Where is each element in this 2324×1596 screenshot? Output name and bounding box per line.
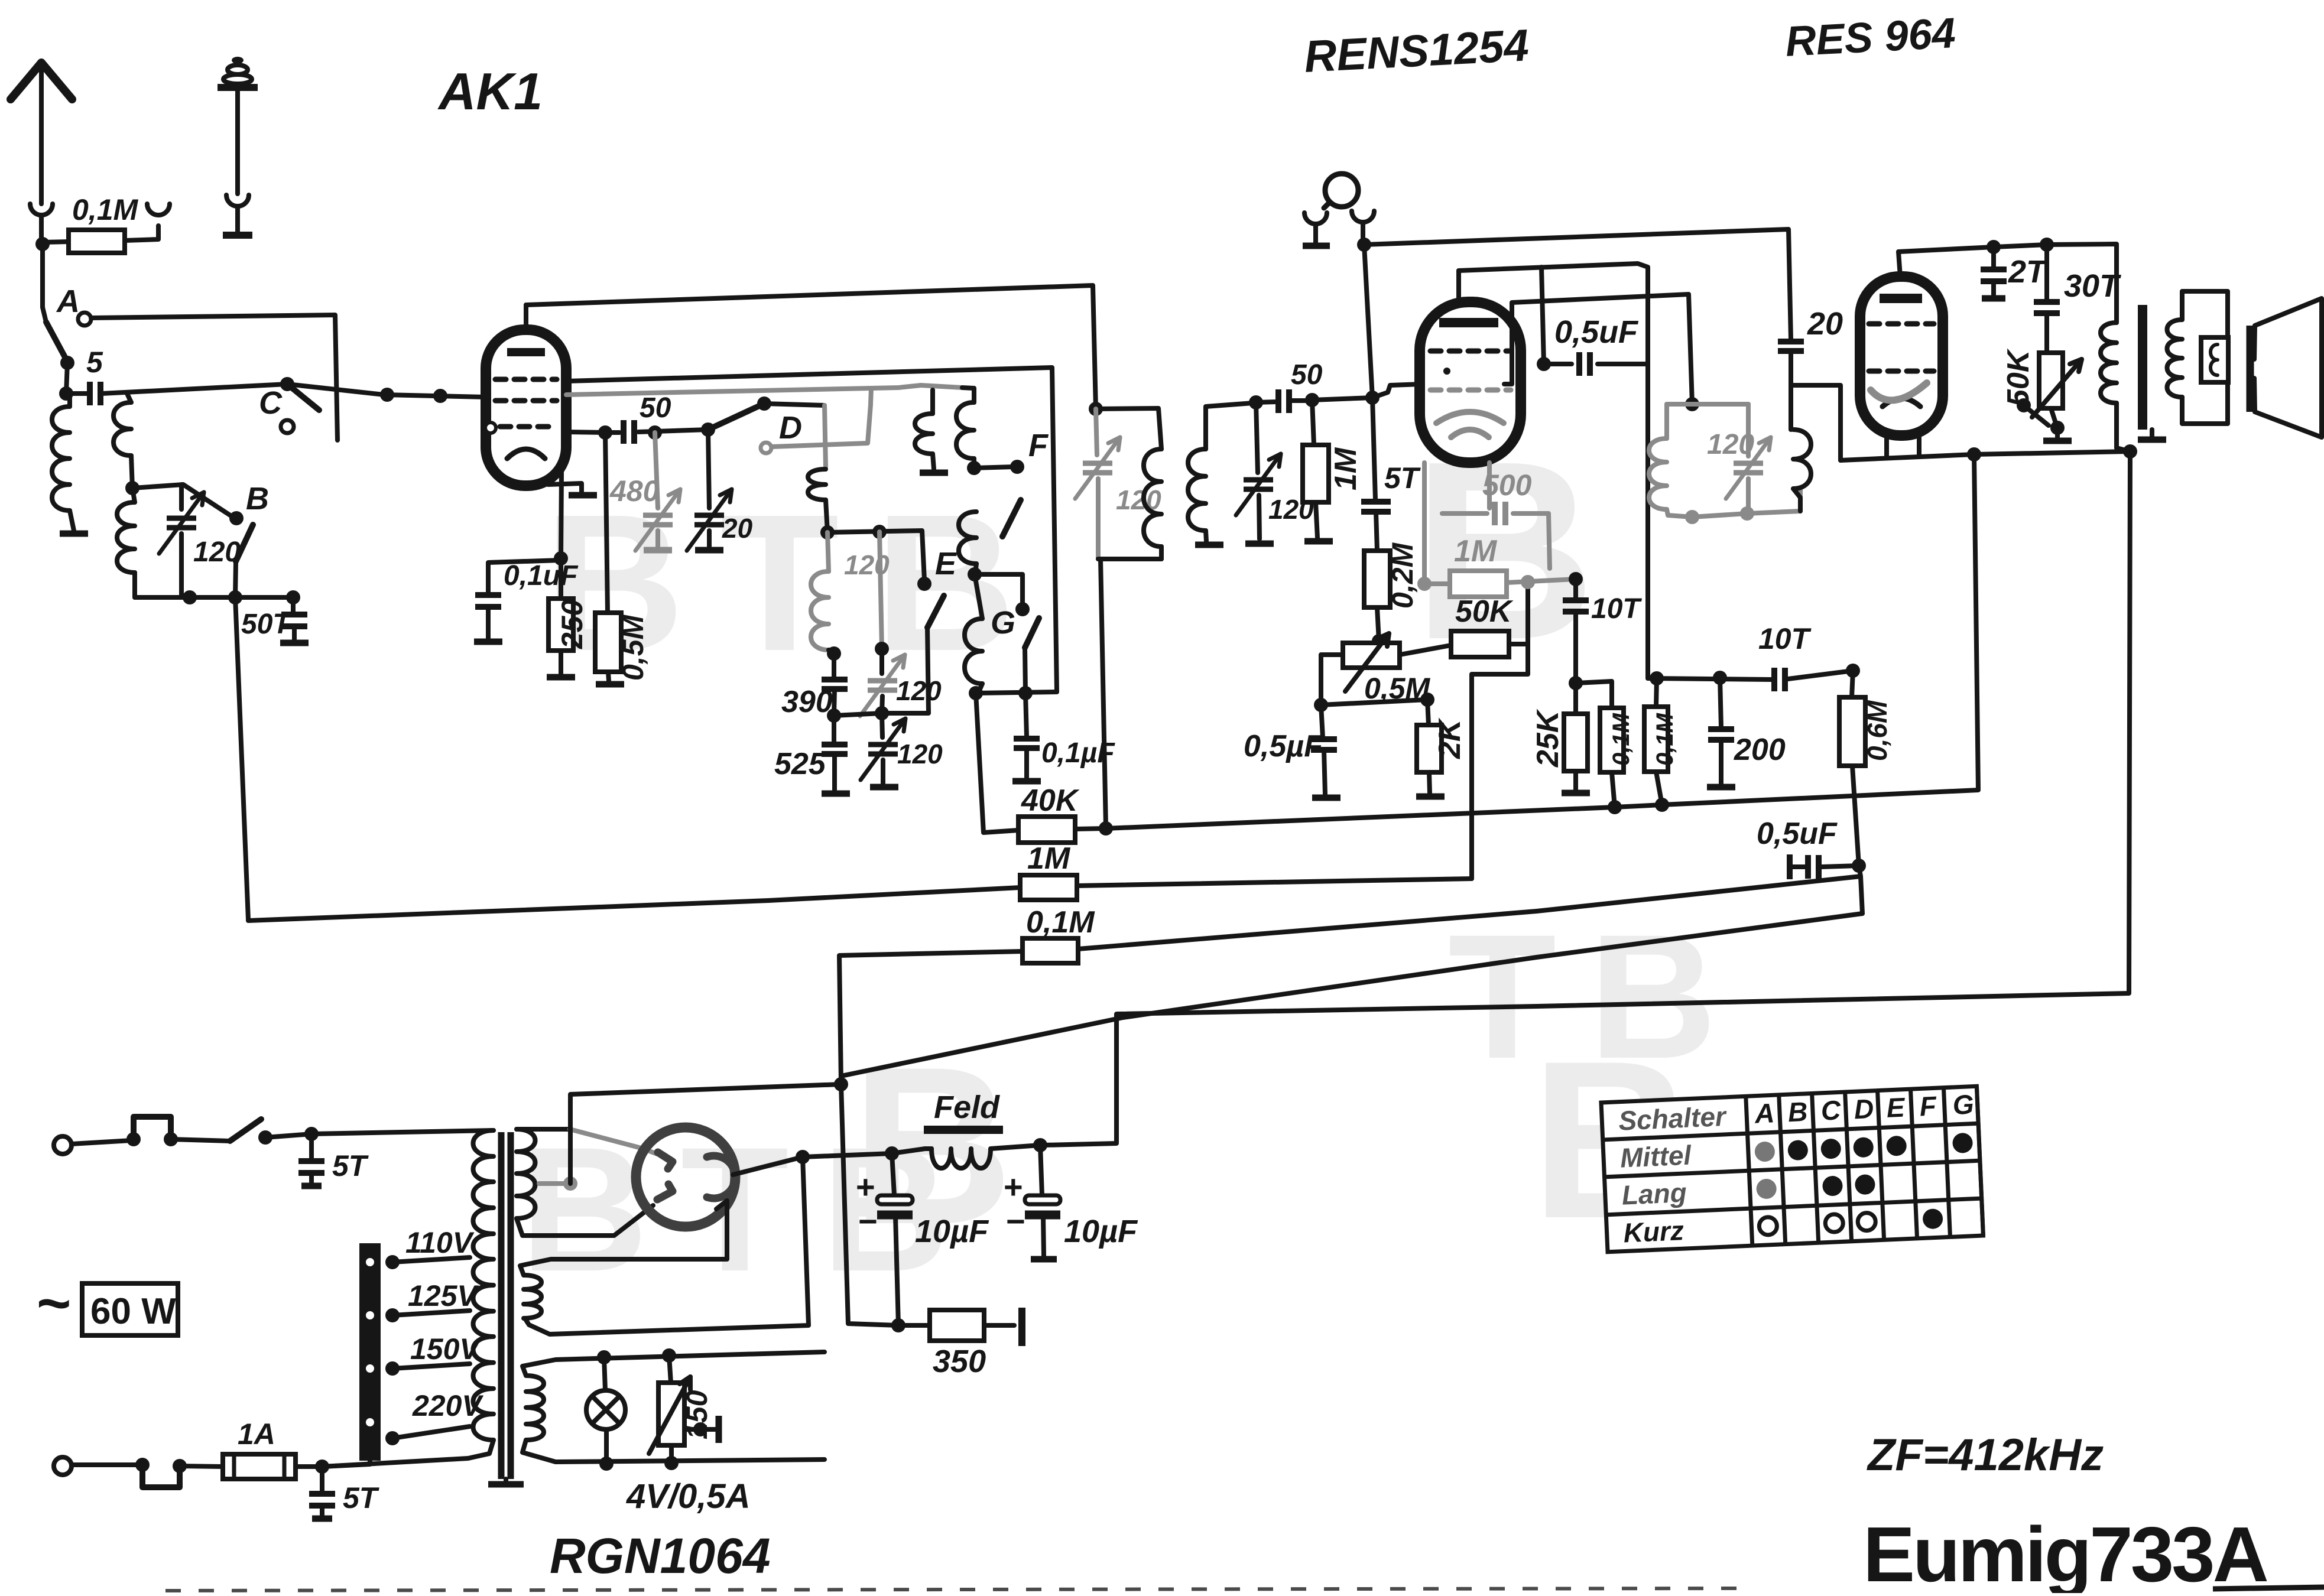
node pot 0,5M top [1372,634,1386,648]
node var cap 480a top [380,388,394,402]
svg-text:10µF: 10µF [1064,1214,1138,1249]
svg-text:120: 120 [896,675,942,706]
resistor 250 [559,558,563,599]
wire osc tank top row [827,531,924,580]
svg-text:TB: TB [1448,897,1750,1096]
rectifier plate stubs [658,1152,673,1169]
svg-text:+: + [856,1168,875,1205]
svg-text:Feld: Feld [934,1090,1000,1125]
antenna coil L1 primary [52,407,70,511]
wire screen row to 0,1M a [1576,681,1612,708]
resistor 25K [1573,683,1578,714]
wire 50K right step [1509,642,1528,646]
wire RENS anode row [1459,264,1648,678]
oscillator coupling coil [808,469,826,500]
wire Lc to G contact [975,574,1023,607]
node 50K tone bottom [2050,421,2065,435]
capacitor 500 gray [1492,502,1498,525]
node 50K tone wiper [2017,398,2031,412]
svg-text:1M: 1M [1329,447,1363,490]
node 0,5uF detector out [1852,859,1866,873]
node L2 bottom [125,481,139,495]
svg-text:50T: 50T [241,609,292,640]
wire screen top row [1648,678,1771,680]
switch B contact [229,511,244,525]
variable capacitor 120 IF1 sec [1256,402,1258,473]
svg-text:C: C [1820,1094,1842,1126]
wire heater bottom row [522,1440,825,1462]
wire tap 150V [392,1364,470,1369]
variable capacitor 120 IF3 [1746,404,1751,456]
node grid row left [598,425,612,440]
wire IF3 top rail [1667,402,1748,407]
node IF3 top [1685,397,1699,411]
capacitor 0,1uF osc [1025,693,1027,737]
capacitor 10T screen [1573,579,1578,599]
svg-text:B: B [246,481,269,516]
node phono [1357,238,1371,252]
svg-text:2K: 2K [1433,717,1467,759]
scan edge artifact [2213,1587,2324,1589]
wire mains top [72,1140,131,1144]
wire C row to tube AK1 grid [287,384,486,397]
ground 2K [1416,794,1445,800]
wire IF1 top rail [1096,408,1161,449]
coil IF1 secondary [1188,449,1206,531]
capacitor 0,1uF AK1 [488,560,561,593]
wire RENS anode riser [1456,271,1461,302]
capacitor 0,5uF af (series) [1787,854,1793,879]
switch D contact [761,443,771,453]
transformer core [498,1132,505,1479]
coil detector [1793,430,1811,489]
node antenna junction [35,237,50,251]
node below switch A [60,356,74,370]
resistor 0,1M b [1656,678,1657,707]
node W1 0,1Ma [1608,800,1622,814]
potentiometer 0,5M [1343,643,1400,668]
node 5T mains top [304,1127,319,1141]
oscillator tank coil 120 [811,571,829,650]
svg-text:350: 350 [933,1344,986,1379]
node 0,5uF left [1314,698,1328,712]
ground 0,1uF osc [1012,778,1041,785]
switch E blade [927,596,944,628]
wire G to row [1025,648,1025,693]
node lamp top [597,1350,611,1364]
node 150 top [662,1348,676,1363]
coil IF1 primary [1144,449,1161,547]
resistor 40K [1018,817,1075,843]
wire cap5 to switch C [66,391,89,396]
ground AK1 bulb [569,492,597,499]
switch B blade [236,525,253,561]
svg-text:5T: 5T [1384,461,1421,495]
svg-text:4V/0,5A: 4V/0,5A [626,1477,751,1516]
svg-text:Schalter: Schalter [1618,1101,1728,1136]
node IF1 sec top [1249,395,1263,409]
svg-text:5: 5 [86,346,103,379]
ground IF1 secondary [1195,542,1223,548]
wire pot left leg [1321,655,1343,705]
capacitor 5T [1372,398,1375,499]
resistor 350 [898,1323,930,1328]
svg-text:RGN1064: RGN1064 [550,1528,771,1584]
tube RES964 cathode [1882,398,1920,407]
node osc tank cap riser [872,525,887,539]
node 1M gray right [1521,575,1535,589]
svg-text:~: ~ [37,1270,71,1337]
wire HV top to rectifier plate [517,1127,570,1132]
svg-text:125V: 125V [408,1279,479,1312]
svg-text:ZF=412kHz: ZF=412kHz [1867,1430,2104,1480]
ground 120 IF1 sec [1245,541,1274,547]
coil L3 secondary lower [117,502,135,573]
ground 250 [547,674,575,681]
ground varcap 120c [870,784,898,791]
node tank bottom mid [228,590,242,604]
resistor 1M IF1 [1312,400,1314,445]
wire AK1 bulb to ground [548,483,582,492]
ground 0,5M [596,681,624,688]
capacitor 200 [1720,678,1721,727]
tube AK1 envelope [486,330,566,486]
wire W2 0,1M line right [1078,876,1861,949]
node switch D pivot [701,422,715,437]
wire 0,5uF to anode row [1541,267,1544,364]
tube RENS pins [1422,463,1427,509]
svg-text:1M: 1M [1454,534,1498,568]
resistor 2K [1427,700,1429,725]
wire RES964 cathode row [1841,451,2130,460]
node Lc bottom [968,567,982,581]
variable capacitor 120c [882,713,882,737]
capacitor 10uF 1 [892,1153,894,1195]
node osc tank top [820,525,835,539]
wire W5 bias return [844,914,1862,1075]
capacitor 30T [2044,245,2049,300]
svg-text:−: − [858,1202,878,1240]
table switch positions [1601,1086,1983,1252]
wire to Feld choke [803,1149,925,1157]
svg-text:0,5uF: 0,5uF [1757,817,1838,851]
ground La [920,470,948,476]
node 525 top [827,708,841,723]
transformer heater winding [526,1376,544,1440]
terminal 150 wiper [716,1416,722,1443]
node IF3 bottom left [1685,510,1699,524]
wire fuse to transformer [296,1458,468,1467]
svg-text:30T: 30T [2064,268,2121,304]
resistor 0,1M a [1600,708,1624,772]
capacitor 50T [291,597,296,613]
wire W1 to output stage [1106,454,1978,828]
svg-text:50: 50 [640,392,671,424]
coil osc Lc [959,512,976,564]
tube RENS anode plate [1439,318,1498,327]
transformer rectifier filament winding [524,1275,541,1318]
transformer HV winding [517,1129,535,1218]
wire D row to coupling coil [764,404,825,405]
svg-text:0,2M: 0,2M [1386,542,1419,609]
wire RES964 anode riser [1898,252,1900,277]
resistor 50K [1451,631,1509,657]
node cathode row right [2123,444,2137,459]
speaker magnet bar [2247,326,2254,412]
node lamp bottom [599,1457,614,1471]
node 150 wiper [693,1422,707,1436]
svg-text:5T: 5T [332,1149,369,1182]
switch F contact [1010,460,1024,474]
wire rectifier output [733,1157,803,1175]
wire AK1 grid cap row [566,432,605,433]
node varcap row2 [875,706,889,720]
capacitor 20 detector [1778,339,1804,344]
variable capacitor 20b [708,430,709,508]
svg-text:10T: 10T [1591,593,1642,625]
wire AK1 cathode gray row [566,385,962,395]
wire input tank bottom row [135,595,293,600]
table labels [1618,1089,1979,1249]
variable capacitor 480b gray [655,433,658,508]
coil IF3 primary [1649,438,1667,509]
svg-text:0,1M: 0,1M [72,193,139,226]
wire 0,6M chain down [1859,866,1862,914]
resistor 1M line [1020,875,1077,900]
coil L2 secondary upper [113,402,131,456]
tube RES964 anode plate [1880,294,1922,303]
wire 390 bottom to varcap2 [834,713,882,716]
ground 480b [644,547,672,554]
capacitor 5T mains bottom [320,1467,324,1492]
wire W3 1M line left [235,597,1020,921]
wire HV tap riser to bias node [570,1084,841,1184]
switch mains blade [230,1119,261,1141]
earth antenna symbol [232,57,244,64]
phono pickup jack [1325,174,1358,207]
capacitor 5T mains top [309,1134,314,1159]
wire E to bottom row [882,628,929,713]
tube RGN1064 rectifier [636,1127,735,1227]
fuse 1A [223,1454,296,1479]
tube RENS1254 envelope [1420,302,1521,463]
svg-text:120: 120 [1707,429,1754,460]
svg-text:0,1M: 0,1M [1608,712,1634,766]
wire W2 0,1M line left [839,951,1023,1083]
node 0,5uF anode left [1537,357,1551,371]
wire D contact link [772,405,871,447]
svg-text:60 W: 60 W [90,1291,176,1332]
phono cup left [1304,213,1327,224]
plug top [134,1117,171,1139]
tube RENS cathode [1436,412,1504,423]
terminal mains top [54,1136,72,1154]
svg-text:2T: 2T [2008,254,2048,290]
svg-text:5T: 5T [343,1481,380,1514]
node 30T top [2040,238,2054,252]
resistor 1M gray [1424,581,1450,586]
node tap 125V [385,1308,400,1322]
resistor 0,6M [1852,671,1853,697]
wire tank top row [132,485,235,518]
svg-text:A: A [56,284,80,319]
wire phono down [1364,245,1372,398]
svg-text:480: 480 [609,474,660,508]
wire filament top to rectifier [520,1201,727,1275]
node HV tap [563,1176,577,1191]
ground 50T [280,640,309,646]
wire tap 110V [392,1257,470,1262]
node tank bottom left [183,590,197,604]
wire down to series cap 5 [66,363,67,394]
capacitor 50 grid (series) [621,420,627,444]
svg-text:10µF: 10µF [915,1214,989,1249]
tube RES964 pins [1884,435,1889,456]
node 150 bottom [664,1456,679,1470]
switch G contact [1015,602,1030,616]
node IF1 out [1305,393,1319,407]
capacitor 10uF 2 [1040,1145,1042,1195]
svg-text:50K: 50K [2001,348,2036,407]
plug bottom [142,1465,180,1487]
switch C contact [281,420,294,433]
node W1 0,1Mb [1655,798,1669,812]
variable capacitor 120 input [179,485,184,509]
svg-text:10T: 10T [1758,622,1812,655]
svg-text:0,5µF: 0,5µF [1244,729,1323,763]
antenna symbol [11,63,72,99]
lamp pilot [586,1390,625,1429]
variable capacitor 120b [879,649,884,674]
switch G blade [1025,618,1039,648]
wire IF1 to RENS grid [1312,384,1422,400]
wire 50K bottom [2051,408,2057,427]
wire AK1 anode to IF transformer 1 [526,285,1096,409]
speaker horn [2254,298,2322,437]
variable capacitor 120 IF1 [1096,409,1097,455]
terminal 5T top [301,1183,322,1189]
node 390 top [827,646,841,661]
svg-text:150V: 150V [410,1332,481,1366]
node 10T left junction [1569,572,1583,586]
node 0,6M top [1846,664,1860,678]
wire osc bottom row [976,692,1057,693]
tube RENS grid dashes [1430,349,1441,354]
ground transformer core [504,1479,508,1481]
terminal 5T bottom [312,1516,332,1522]
node mains switch [258,1130,272,1145]
tube AK1 grid dashes [495,377,506,382]
node osc row right [1018,686,1033,700]
svg-text:250: 250 [556,599,589,649]
svg-text:0,5M: 0,5M [616,614,650,681]
node screen row [1569,676,1583,690]
wire mains bottom [72,1462,142,1467]
node grid row mid [648,425,662,440]
node IF3 bottom right [1740,506,1754,521]
resistor 0,5M AK1 grid leak riser [605,433,608,613]
wire tank col [879,532,882,649]
svg-text:D: D [779,410,802,446]
wire tap 125V [392,1311,470,1315]
wire switch A to oscillator coil 480 [91,315,337,440]
node B+ cap1 [885,1146,899,1161]
svg-text:Kurz: Kurz [1623,1215,1684,1248]
svg-text:0,1M: 0,1M [1652,712,1678,766]
speaker coil box [2201,337,2228,382]
node 1M gray left [1417,577,1432,591]
wire Lb to F contact [974,467,1014,468]
svg-text:20: 20 [1807,306,1843,342]
svg-text:A: A [1754,1097,1775,1129]
node 350 left [891,1318,905,1332]
node 250 top [554,551,568,565]
svg-text:RES 964: RES 964 [1784,9,1957,66]
svg-text:20: 20 [722,513,753,544]
svg-text:0,5uF: 0,5uF [1554,314,1639,350]
ground 25K [1562,790,1590,797]
switch F blade [1002,500,1021,537]
node 40K right [1099,821,1113,836]
node bias junction [834,1077,848,1091]
wire W1 40K line [976,693,1018,833]
capacitor 525 [832,716,836,743]
transformer primary winding [473,1130,494,1440]
terminal 2T [1982,295,2005,302]
capacitor 5 (series) [87,382,93,405]
node 2K top [1420,693,1434,707]
wire W3 1M line right [1077,879,1472,886]
choke Feld bar [924,1126,1003,1134]
svg-text:1M: 1M [1027,841,1071,876]
wire row 390-120 [832,654,836,678]
antenna cup right [147,204,170,215]
switch E contact [917,577,931,591]
coil osc Lb [956,402,974,459]
wire bias row [1321,700,1427,705]
ground 0,5uF bias [1312,795,1340,801]
svg-text:+: + [1004,1168,1023,1205]
capacitor 0,5uF bias [1321,705,1323,737]
transformer output core [2138,305,2147,430]
label 60W box [82,1283,178,1335]
svg-text:525: 525 [774,747,826,781]
terminal mains bottom [54,1457,72,1475]
ground 0,1uF AK1 [474,639,502,645]
wire IF1 bottom rail [1098,557,1161,561]
wire D step to cathode row [871,388,871,404]
node 2T top [1987,240,2001,254]
tube RES964 grid dashes [1869,321,1880,327]
resistor 150 rheostat [669,1356,671,1383]
terminal 10uF 2 [1031,1256,1057,1263]
svg-text:F: F [1919,1090,1938,1122]
wire tap 220V [392,1426,470,1438]
tube RES964 envelope [1860,277,1943,435]
svg-text:E: E [1886,1092,1906,1123]
node varcap 120b top [875,642,889,656]
svg-text:F: F [1028,428,1049,463]
ground output core [2150,430,2154,436]
wire HV tap [539,1181,570,1186]
wire HV bottom to rectifier plate [517,1205,653,1236]
wire antenna to resistor [41,238,43,307]
svg-text:120: 120 [844,550,890,580]
wire pot right to 50K [1400,645,1451,655]
svg-text:50: 50 [1291,359,1323,391]
node Lb bottom [967,461,981,475]
svg-text:25K: 25K [1531,708,1565,768]
